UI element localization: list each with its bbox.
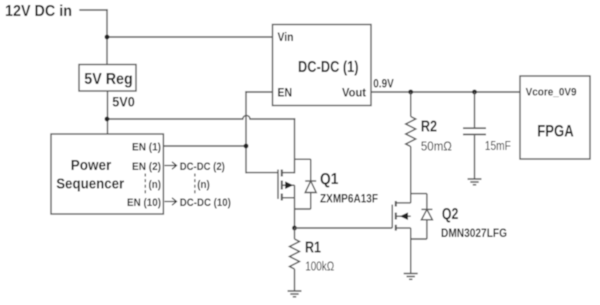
node: 12V-Vin junction xyxy=(105,35,110,40)
svg-text:EN: EN xyxy=(278,85,293,99)
wire: 5V0 turn down to Q1 drain xyxy=(294,119,296,173)
Q2 body lead xyxy=(397,215,411,217)
svg-text:R2: R2 xyxy=(421,118,437,135)
svg-text:5V Reg: 5V Reg xyxy=(84,71,133,88)
Q1 channel segments xyxy=(281,170,283,201)
Q2 channel segments xyxy=(395,201,397,231)
Q1 body-source tie xyxy=(294,185,296,198)
svg-text:0.9V: 0.9V xyxy=(373,77,393,91)
svg-text:FPGA: FPGA xyxy=(537,122,573,140)
svg-text:DC-DC (10): DC-DC (10) xyxy=(180,197,231,209)
svg-text:Vcore_0V9: Vcore_0V9 xyxy=(526,87,577,99)
Q2 drain lead xyxy=(397,202,411,204)
ground (R1) xyxy=(288,291,302,297)
Q1 drain lead xyxy=(283,172,295,174)
diode D1 (Q1 body diode) xyxy=(295,159,317,209)
wire: Q1 gate lead xyxy=(246,172,278,174)
fpga U4 xyxy=(520,76,590,159)
wire: Q2 source down to ground xyxy=(410,228,412,273)
Q2 gate bar xyxy=(391,205,393,228)
svg-text:Power: Power xyxy=(71,157,112,174)
wire: 5V0 net from regulator down xyxy=(107,91,109,134)
svg-text:(n): (n) xyxy=(197,179,210,191)
svg-text:100kΩ: 100kΩ xyxy=(305,260,334,274)
svg-text:R1: R1 xyxy=(305,239,321,256)
svg-text:DMN3027LFG: DMN3027LFG xyxy=(441,226,507,240)
power sequencer U3 xyxy=(51,134,163,214)
Q2 source lead xyxy=(397,227,411,229)
resistor R2 xyxy=(406,92,416,203)
wire: EN net vertical xyxy=(245,92,247,173)
transistor Q2 (N-MOSFET) xyxy=(392,201,411,273)
diode D2 (Q2 body diode) xyxy=(411,194,433,239)
svg-text:12V DC in: 12V DC in xyxy=(5,3,72,20)
dashed expansion line inside sequencer xyxy=(144,174,146,196)
node: Q1 source / R1 / Q2 gate junction xyxy=(292,226,297,231)
svg-text:Q1: Q1 xyxy=(320,171,339,188)
wire: EN(1) from sequencer xyxy=(163,145,246,147)
wire: Q2 gate net xyxy=(295,227,393,229)
wire: Q1 source down to junction xyxy=(294,198,296,228)
node: R2 tap on 0.9V rail xyxy=(408,90,413,95)
arrow to DC-DC (10) xyxy=(165,198,177,205)
svg-text:DC-DC (2): DC-DC (2) xyxy=(180,161,225,173)
svg-text:EN (2): EN (2) xyxy=(132,161,161,173)
svg-text:EN (10): EN (10) xyxy=(127,197,161,209)
svg-text:Sequencer: Sequencer xyxy=(56,175,124,192)
Q1 source lead xyxy=(283,197,295,199)
node: capacitor tap on 0.9V rail xyxy=(472,90,477,95)
ground (capacitor) xyxy=(468,179,482,185)
wire: 12V vertical bus to 5V Reg xyxy=(106,10,108,65)
ground (Q2) xyxy=(404,274,418,280)
capacitor 15mF xyxy=(463,92,486,179)
dashed expansion line outside sequencer xyxy=(194,174,196,196)
svg-text:Vin: Vin xyxy=(278,30,294,44)
wire: Vin feed xyxy=(107,36,273,38)
svg-text:5V0: 5V0 xyxy=(112,94,135,110)
arrow to DC-DC (2) xyxy=(165,162,177,169)
svg-text:DC-DC (1): DC-DC (1) xyxy=(298,59,359,76)
wire: EN pin feed xyxy=(246,91,273,93)
svg-text:Q2: Q2 xyxy=(442,206,459,223)
transistor Q1 (P-MOSFET) xyxy=(246,170,295,229)
Q1 gate bar xyxy=(277,170,279,200)
Q2 body arrow xyxy=(400,212,408,220)
svg-text:(n): (n) xyxy=(149,179,162,191)
resistor R1 xyxy=(290,228,300,291)
node: EN(1) junction xyxy=(244,144,249,149)
node: 5V0 junction xyxy=(105,117,110,122)
svg-text:ZXMP6A13F: ZXMP6A13F xyxy=(320,192,378,206)
wire: 12V input lead xyxy=(80,9,107,11)
dc-dc converter U2 xyxy=(273,25,372,106)
svg-text:Vout: Vout xyxy=(342,85,366,99)
svg-text:15mF: 15mF xyxy=(485,139,511,153)
Q1 body arrow xyxy=(285,181,293,189)
svg-text:50mΩ: 50mΩ xyxy=(421,140,452,154)
regulator 5V Reg xyxy=(79,65,136,92)
Q1 body lead xyxy=(283,184,295,186)
wire: 0.9V rail xyxy=(371,91,520,93)
wire: 5V0 horizontal with hop over EN line xyxy=(107,115,295,119)
svg-text:EN (1): EN (1) xyxy=(132,142,161,154)
